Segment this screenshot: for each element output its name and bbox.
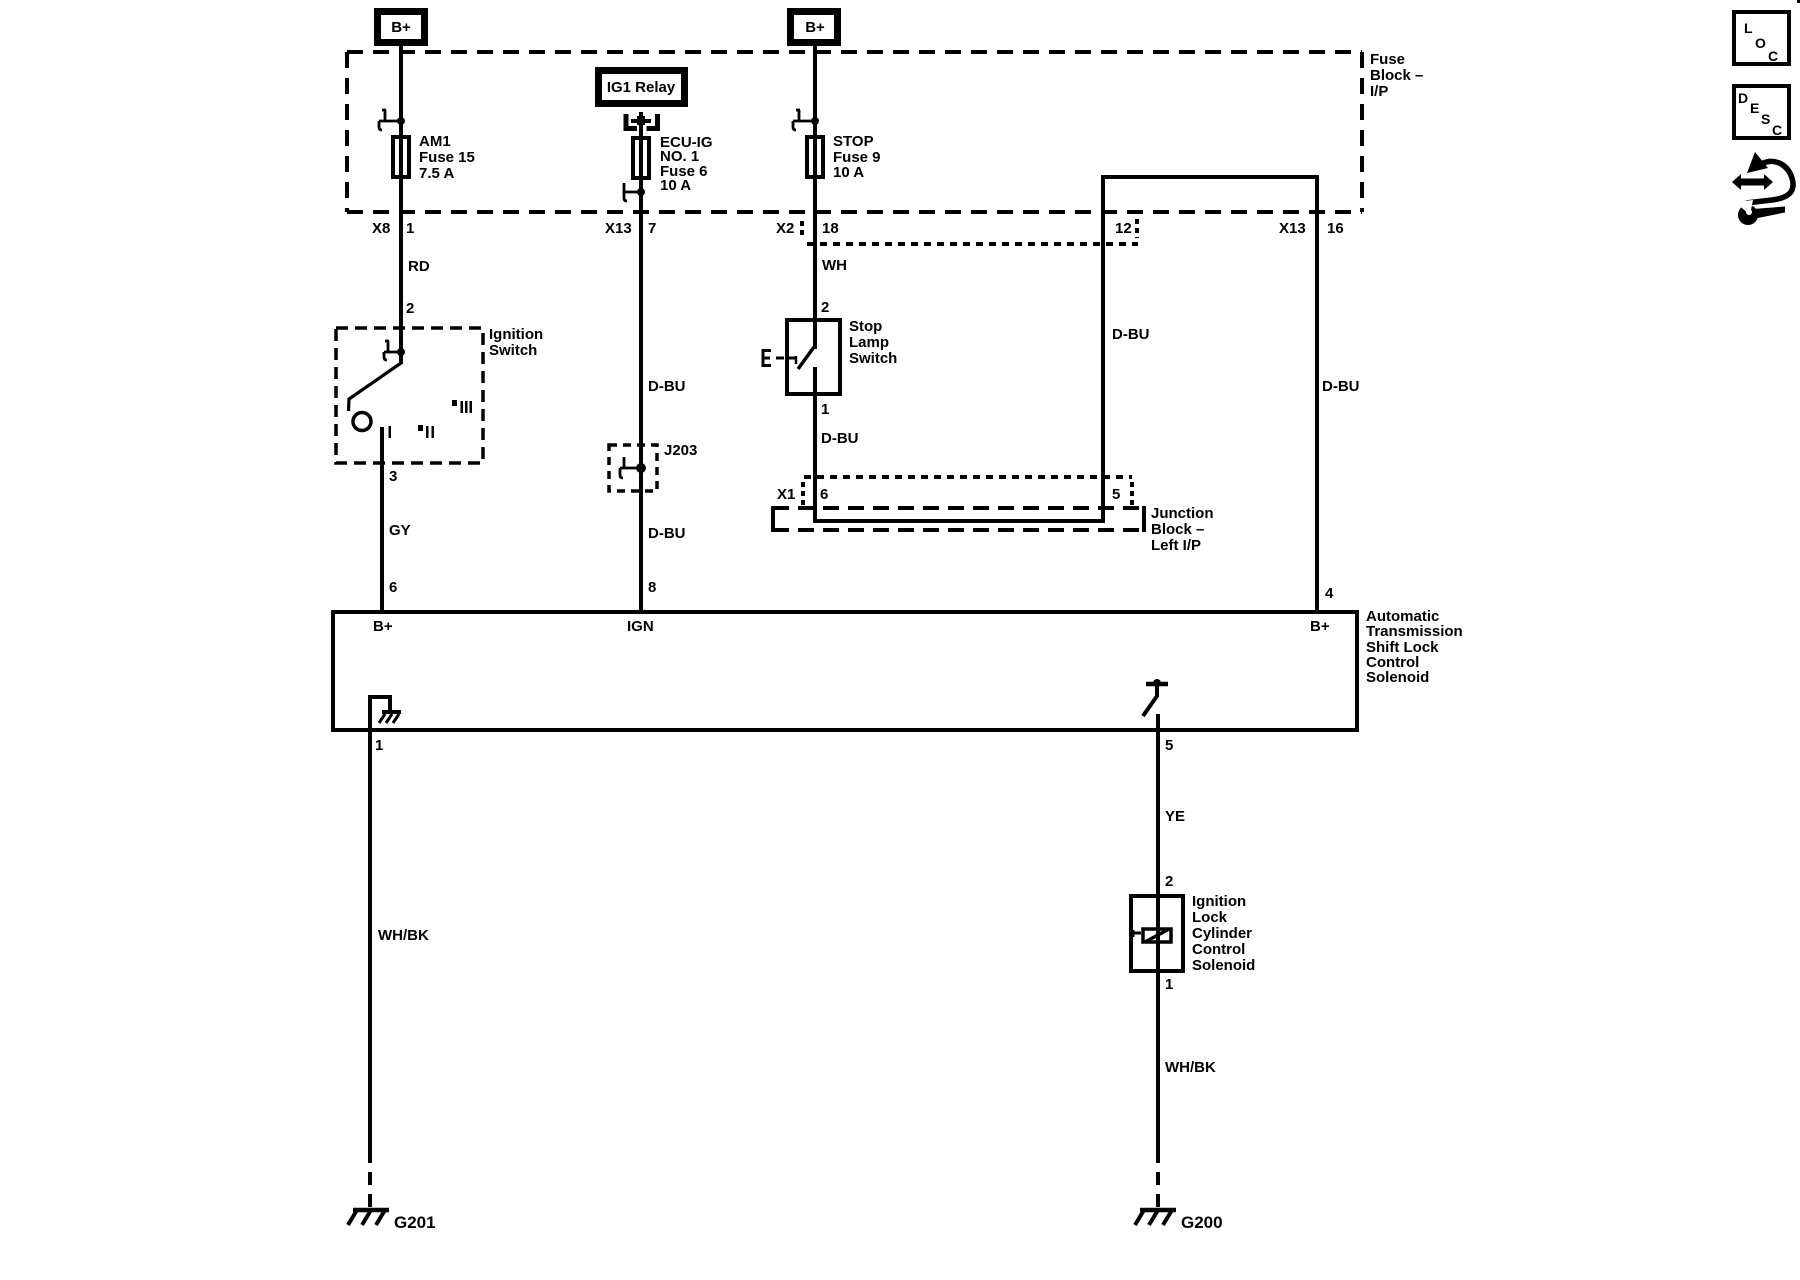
svg-text:D: D: [1738, 90, 1748, 106]
svg-text:Ignition: Ignition: [489, 326, 543, 343]
svg-text:6: 6: [820, 486, 828, 503]
svg-text:Block –: Block –: [1151, 521, 1204, 538]
svg-text:B+: B+: [391, 19, 411, 36]
svg-text:WH/BK: WH/BK: [1165, 1059, 1216, 1076]
svg-text:12: 12: [1115, 220, 1132, 237]
svg-text:Switch: Switch: [489, 342, 537, 359]
svg-text:Junction: Junction: [1151, 505, 1214, 522]
svg-text:2: 2: [821, 299, 829, 316]
svg-text:X13: X13: [1279, 220, 1306, 237]
svg-text:AM1: AM1: [419, 133, 451, 150]
svg-text:X13: X13: [605, 220, 632, 237]
svg-text:O: O: [1755, 35, 1766, 51]
svg-text:6: 6: [389, 579, 397, 596]
svg-text:1: 1: [406, 220, 414, 237]
svg-text:Stop: Stop: [849, 318, 882, 335]
svg-text:WH/BK: WH/BK: [378, 927, 429, 944]
svg-text:18: 18: [822, 220, 839, 237]
svg-text:Lamp: Lamp: [849, 334, 889, 351]
svg-text:5: 5: [1112, 486, 1120, 503]
svg-text:L: L: [1744, 20, 1753, 36]
svg-text:B+: B+: [373, 618, 393, 635]
svg-text:D-BU: D-BU: [1112, 326, 1150, 343]
svg-text:7: 7: [648, 220, 656, 237]
svg-text:D-BU: D-BU: [648, 525, 686, 542]
svg-text:RD: RD: [408, 258, 430, 275]
svg-text:10 A: 10 A: [660, 177, 691, 194]
svg-text:S: S: [1761, 111, 1770, 127]
svg-text:Ignition: Ignition: [1192, 893, 1246, 910]
svg-text:J203: J203: [664, 442, 697, 459]
svg-text:D-BU: D-BU: [648, 378, 686, 395]
svg-text:7.5 A: 7.5 A: [419, 165, 454, 182]
svg-text:I/P: I/P: [1370, 83, 1388, 100]
svg-text:G200: G200: [1181, 1213, 1223, 1232]
svg-text:X1: X1: [777, 486, 795, 503]
svg-text:8: 8: [648, 579, 656, 596]
svg-text:X8: X8: [372, 220, 390, 237]
svg-text:X2: X2: [776, 220, 794, 237]
svg-text:GY: GY: [389, 522, 411, 539]
svg-text:B+: B+: [1310, 618, 1330, 635]
svg-text:YE: YE: [1165, 808, 1185, 825]
svg-text:E: E: [1750, 100, 1759, 116]
svg-text:G201: G201: [394, 1213, 436, 1232]
svg-text:4: 4: [1325, 585, 1334, 602]
svg-text:3: 3: [389, 468, 397, 485]
svg-text:Control: Control: [1192, 941, 1245, 958]
svg-text:1: 1: [821, 401, 829, 418]
svg-text:Fuse: Fuse: [1370, 51, 1405, 68]
svg-text:Fuse 15: Fuse 15: [419, 149, 475, 166]
svg-text:Block –: Block –: [1370, 67, 1423, 84]
svg-text:Switch: Switch: [849, 350, 897, 367]
svg-text:IGN: IGN: [627, 618, 654, 635]
svg-text:IG1 Relay: IG1 Relay: [607, 79, 676, 96]
svg-text:1: 1: [375, 737, 383, 754]
svg-text:Transmission: Transmission: [1366, 623, 1463, 640]
svg-text:Lock: Lock: [1192, 909, 1228, 926]
svg-text:WH: WH: [822, 257, 847, 274]
svg-text:Left I/P: Left I/P: [1151, 537, 1201, 554]
svg-text:D-BU: D-BU: [821, 430, 859, 447]
svg-text:STOP: STOP: [833, 133, 874, 150]
svg-text:5: 5: [1165, 737, 1173, 754]
svg-text:C: C: [1772, 122, 1782, 138]
svg-text:1: 1: [1165, 976, 1173, 993]
svg-text:16: 16: [1327, 220, 1344, 237]
svg-text:2: 2: [406, 300, 414, 317]
svg-text:B+: B+: [805, 19, 825, 36]
svg-text:C: C: [1768, 48, 1778, 64]
svg-text:2: 2: [1165, 873, 1173, 890]
svg-text:Cylinder: Cylinder: [1192, 925, 1252, 942]
svg-text:Solenoid: Solenoid: [1192, 957, 1255, 974]
svg-text:D-BU: D-BU: [1322, 378, 1360, 395]
svg-text:Solenoid: Solenoid: [1366, 669, 1429, 686]
svg-text:10 A: 10 A: [833, 164, 864, 181]
